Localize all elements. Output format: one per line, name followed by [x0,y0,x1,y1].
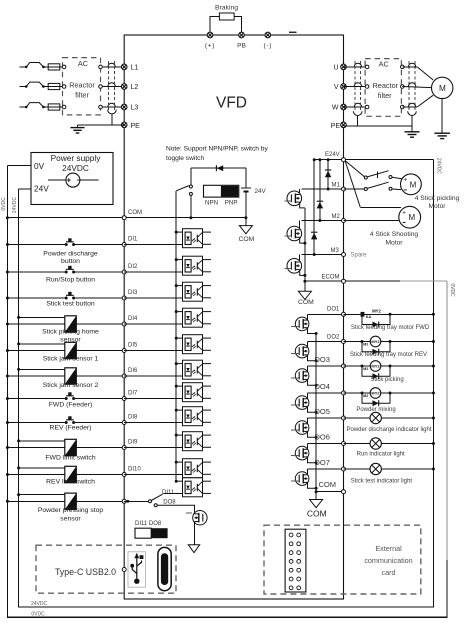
wire relay DO3 diode loop [362,366,390,376]
svg-text:4 Stick Shooting: 4 Stick Shooting [370,231,419,238]
svg-text:button: button [61,258,80,265]
svg-text:L3: L3 [131,105,139,112]
wire DO5 inside [308,417,344,419]
svg-text:DI6: DI6 [128,368,138,374]
svg-text:Run indicator light: Run indicator light [357,451,405,457]
svg-text:Stick picking home: Stick picking home [42,329,99,336]
wires filter to motor [402,66,417,68]
wire DO7 source [308,482,317,488]
terminal USB [122,568,126,572]
svg-text:Stick picking: Stick picking [370,377,403,383]
resistor braking [219,13,234,20]
wire L1 filter to terminal [101,66,125,68]
push button DI1 [65,238,75,246]
wire U/V/W to filter [344,66,368,68]
wire 24V to rail [19,188,31,190]
svg-text:Reactor: Reactor [373,81,399,90]
switch pole 1 [364,176,367,179]
switch contact 1 [389,176,392,179]
svg-text:card: card [382,568,396,577]
svg-text:+: + [403,177,407,184]
terminal DO5 [342,416,346,420]
svg-text:M2: M2 [363,367,368,371]
terminal DI9 [122,446,126,450]
junction 24VDC feed DI11 [17,493,20,496]
junction 0VDC / DI4 [6,323,9,326]
terminal PB [239,32,245,38]
junction 24VDC feed DI6 [17,368,20,371]
svg-text:0VDC: 0VDC [31,611,45,617]
wire L3 filter to terminal [101,106,125,108]
svg-text:DI8: DI8 [128,415,138,421]
wire DO2 source [308,355,317,361]
terminal DO4 [342,391,346,395]
diode toggle [215,165,217,171]
svg-text:filter: filter [75,91,89,100]
toggle switch NPN/PNP body [204,185,239,197]
svg-text:DO8: DO8 [163,500,176,506]
wire DI2 left [7,271,66,273]
wire DI11 to opto [163,493,182,495]
wire DO2 through relay to rail [344,341,434,343]
svg-text:toggle switch: toggle switch [166,155,204,162]
ground output filter [405,132,420,137]
shield loop (output right) [408,111,417,115]
push button DI8 [65,416,75,424]
junction source bus DO2 [315,359,318,362]
terminal COM (DO) [342,490,346,494]
AC reactor filter (output) [365,59,401,117]
proximity sensor DI10 [65,466,77,482]
terminal L3 [121,104,127,110]
MOSFET DO7 driver [295,472,309,486]
svg-text:Braking: Braking [215,5,238,12]
wire DI2 right [74,271,125,273]
svg-text:M2: M2 [363,394,368,398]
fuse input L2 [43,86,48,88]
wire DO2 drain [307,342,309,348]
terminal DO7 [342,467,346,471]
diode relay DO4 [373,400,379,406]
svg-text:communication: communication [364,556,412,565]
wire DI3 right [74,297,125,299]
motor 4 stick picking [401,174,422,195]
fuse input L1 [43,66,48,68]
terminal DO6 [342,442,346,446]
svg-text:24V: 24V [34,183,49,193]
svg-text:Stick test indicator light: Stick test indicator light [351,479,413,485]
winding bump output-right [408,103,415,107]
terminal DI10 [122,473,126,477]
0VDC rail (right vertical) [446,281,448,560]
svg-text:Reactor: Reactor [69,81,95,90]
svg-text:REV (Feeder): REV (Feeder) [50,425,92,432]
winding bump output-left [354,83,361,87]
junction 0VDC / DI8 [6,421,9,424]
wire PE right row [344,125,413,127]
terminal DI5 [122,349,126,353]
winding bump output-left [354,63,361,67]
optocoupler DI3 [175,282,211,301]
junction source bus DO5 [315,436,318,439]
svg-text:DI11: DI11 [162,490,175,496]
terminal DO2 [342,340,346,344]
shield loop (output left) [353,111,362,115]
svg-text:Note: Support NPN/PNP, switch: Note: Support NPN/PNP, switch by [166,145,268,152]
svg-text:V: V [334,84,339,91]
terminal (+) [207,32,213,38]
junction source bus DO1 [315,332,318,335]
COM ground symbol (DO) [310,500,323,508]
terminal DI11/DO8 [122,499,126,503]
wire DI5 left [7,350,64,352]
wire input phase L2 [20,86,27,88]
winding bump L2 input side [108,83,115,87]
toggle contact lower [189,192,192,195]
gate stub DO3 [291,377,299,379]
wire DI2 to opto [124,271,182,273]
battery 24V [245,168,247,187]
switch blade 1 [367,171,388,177]
svg-text:Powder pressing stop: Powder pressing stop [38,507,104,514]
wire DI6 right [76,375,124,377]
wire 24V feed DI6 [19,368,65,370]
wire DI3 left [7,297,66,299]
terminal W [341,104,347,110]
wire L2 filter to terminal [101,86,125,88]
wire M1 to pole2 [344,188,365,190]
wire M2 row to motor2- [344,220,400,222]
wire DI9 left [7,447,64,449]
wire M3 row [302,254,344,256]
ground motor [434,133,450,138]
winding bump L1 input side [108,63,115,67]
gate stub DO1 [291,325,299,327]
terminal L1 [121,64,127,70]
USB trident icon [128,552,146,587]
svg-text:DO1: DO1 [327,306,340,312]
svg-text:REV limit switch: REV limit switch [46,479,95,486]
junction source bus DO7 [315,487,318,490]
gate stub DO6 [291,455,299,457]
gate stub DO4 [291,404,299,406]
terminal V [341,84,347,90]
wire DO8 [157,505,194,514]
wire input phase L3 [20,106,27,108]
svg-text:sensor: sensor [60,515,81,522]
diode relay DO1 [373,322,379,328]
proximity sensor DI9 [65,439,77,455]
filter out terminal out [401,65,405,69]
connector 2x7 pins [285,529,306,592]
choke core (input) [108,61,110,110]
wire DO7 drain [307,469,309,475]
wire DO7 inside [308,468,344,470]
DC source symbol [48,179,66,181]
filter terminal in [62,65,66,69]
wire 24V feed DI10 [19,467,65,469]
wire DO4 inside [308,392,344,394]
svg-text:DO2: DO2 [327,334,340,340]
switch input L3 [25,106,28,109]
wire DI6 to opto [124,375,182,377]
svg-text:M: M [408,213,415,222]
svg-text:FWD limit switch: FWD limit switch [45,455,95,462]
svg-text:AC: AC [78,59,88,68]
svg-text:DI11 DO8: DI11 DO8 [135,521,162,527]
winding bump output-left [354,103,361,107]
wire toggle top with diode [191,167,246,169]
svg-text:W: W [332,105,339,112]
optocoupler DI10 [175,459,211,478]
svg-text:DI2: DI2 [128,264,138,270]
wire DO source bus [315,334,317,500]
junction 0VDC / DI6 [6,375,9,378]
terminal DI1 [122,243,126,247]
AC reactor filter (input) [63,58,101,115]
svg-text:L2: L2 [131,84,139,91]
wire contact2 to motor1- [392,188,401,191]
svg-text:MY2: MY2 [371,390,380,395]
terminal DO3 [342,364,346,368]
svg-text:Type-C USB2.0: Type-C USB2.0 [55,567,116,577]
wire M1 row [302,188,344,190]
terminal DI4 [122,322,126,326]
svg-text:24VDC: 24VDC [31,601,48,607]
filter terminal out [99,105,103,109]
svg-text:Stick test button: Stick test button [46,301,95,308]
wire M-driver source bus [304,208,306,291]
flyback diode M2 [319,160,321,221]
svg-text:DI4: DI4 [128,316,138,322]
svg-text:COM: COM [307,508,327,518]
wire contact1 to motor1+ [392,177,403,179]
junction 24VDC feed DI9 [17,439,20,442]
wire DO5 through lamp to rail [344,417,434,419]
svg-text:DO3: DO3 [315,355,330,364]
gate stub DO8 [186,512,192,514]
optocoupler DI2 [175,256,211,275]
junction 0VDC / DI10 [6,473,9,476]
svg-text:Stick feeding tray motor FWD: Stick feeding tray motor FWD [351,325,430,331]
terminal U [341,64,347,70]
junction 0VDC / DI3 [6,297,9,300]
optocoupler DI4 [175,308,211,327]
fork contact DO8 [154,504,157,507]
svg-text:M2: M2 [363,342,368,346]
gate stub M1 [285,200,292,202]
MOSFET DO6 driver [295,446,309,460]
optocoupler DI1 [175,229,211,248]
svg-text:COM: COM [298,299,314,306]
0VDC rail (left+bottom) [7,166,446,618]
MOSFET DO3 driver [295,369,309,383]
MOSFET M1 driver [299,189,301,195]
winding bump output-right [408,83,415,87]
wire DI8 to opto [124,422,182,424]
optocoupler DI7 [175,383,211,402]
wire DI6 left [7,375,64,377]
polarity dash mark [289,32,297,33]
wire DO1 inside [308,313,344,315]
terminal M3 [342,253,346,257]
filter terminal out [99,65,103,69]
indicator lamp DO6 [370,438,381,449]
MOSFET DO1 driver [295,317,309,331]
wire braking PB lead [234,17,241,36]
junction 0VDC / DI7 [6,397,9,400]
wire DO5 drain [307,418,309,424]
svg-text:M1: M1 [332,182,341,188]
switch gang link [377,172,379,179]
svg-text:MY2: MY2 [372,309,381,314]
wire DO3 drain [307,366,309,372]
svg-text:4 Stick pickting: 4 Stick pickting [415,195,460,202]
push button DI3 [65,292,75,300]
gate stub M2 [285,235,292,237]
proximity sensor DI4 [65,316,77,332]
svg-text:E24V: E24V [325,152,340,158]
junction 24VDC feed DI4 [17,316,20,319]
svg-text:M3: M3 [331,248,340,254]
proximity sensor powder pressing stop [65,493,77,509]
wire DO3 source [308,379,317,385]
external communication card dashed box [264,525,421,594]
gate stub DO7 [291,480,299,482]
wire fork input [124,500,148,502]
terminal DI6 [122,374,126,378]
wire COM row [7,217,124,219]
wire E24V row [314,159,343,161]
svg-text:DI3: DI3 [128,290,138,296]
svg-text:+: + [402,210,406,217]
svg-text:U: U [333,64,338,71]
filter out terminal out [401,85,405,89]
svg-text:L1: L1 [131,64,139,71]
svg-text:ECOM: ECOM [322,275,340,281]
MOSFET DO5 driver [295,421,309,435]
wire braking (+) lead [210,17,219,36]
flyback diode M1 [327,160,329,189]
svg-text:DI5: DI5 [128,343,138,349]
optocoupler DI8 [175,407,211,426]
svg-text:Motor: Motor [428,203,446,210]
wire DO6 through lamp to rail [344,443,434,445]
COM ground symbol (M drivers) [298,291,311,299]
wire M2 row [302,220,344,222]
svg-text:Stick jam sensor 1: Stick jam sensor 1 [43,356,99,363]
ground triangle DO8 [188,545,199,553]
relay coil DO2 [370,336,381,347]
junction 0VDC / DI9 [6,446,9,449]
terminal ECOM [342,279,346,283]
svg-text:PB: PB [237,43,246,50]
terminal DI3 [122,296,126,300]
junction 24VDC feed DI10 [17,466,20,469]
MOSFET M2 driver [299,221,301,230]
toggle contact upper [189,185,192,188]
wire DI9 to opto [124,447,182,449]
junction 0VDC / DI11 [6,500,9,503]
svg-text:COM: COM [319,480,337,489]
wire 24V feed DI11 [19,494,65,496]
svg-text:PE: PE [131,123,141,130]
wire opto supply bus [175,191,177,482]
wire ECOM row [305,280,344,282]
svg-text:NPN: NPN [205,199,218,206]
wire DO7 through lamp to rail [344,468,434,470]
choke core (output right) [408,61,410,110]
svg-text:Stick jam sensor 2: Stick jam sensor 2 [43,382,99,389]
wire relay DO4 diode loop [362,393,390,403]
terminal M1 [342,187,346,191]
svg-text:24VDC: 24VDC [436,158,442,175]
wire DO1 through relay to rail [344,313,434,315]
junction COM row / battery [244,216,247,219]
wire DO2 inside [308,341,344,343]
COM ground symbol (toggle) [245,218,247,226]
svg-text:MY2: MY2 [371,339,380,344]
svg-text:PE: PE [331,123,341,130]
relay coil DO3 [370,361,381,372]
wire toggle left vertical [190,168,192,185]
wire 24V feed DI9 [19,440,65,442]
svg-text:M: M [439,84,446,93]
slide switch DI11/DO8 [135,528,151,538]
wire DI8 left [7,422,66,424]
MOSFET DO2 driver [295,344,309,358]
shield loop (input) [108,110,117,114]
diode relay DO2 [373,349,379,355]
wire DO4 drain [307,393,309,399]
wire DI10 to opto [124,474,182,476]
svg-text:MY2: MY2 [371,363,380,368]
svg-text:DO4: DO4 [315,382,330,391]
push button DI2 [65,266,75,274]
MOSFET M3 driver [299,255,301,263]
svg-text:PNP: PNP [225,199,238,206]
wire DI7 left [7,398,66,400]
terminal DI2 [122,270,126,274]
24VDC rail (left+bottom+right) [19,160,434,607]
svg-text:DO7: DO7 [315,458,330,467]
VFD enclosure box [124,35,343,599]
wire DO8 source down [194,522,196,545]
svg-text:COM: COM [128,210,142,216]
Type-C connector icon [158,547,171,590]
junction source bus DO6 [315,461,318,464]
choke core (output left) [354,61,356,110]
wire DI4 to opto [124,323,182,325]
wire DI8 right [74,422,125,424]
wire DI10 left [7,474,64,476]
optocoupler DI11 [175,478,211,497]
motor 4 stick shooting [399,206,421,228]
svg-text:AC: AC [379,60,389,69]
wire DI11 right [76,500,124,502]
wire U/V/W to filter [344,106,368,108]
svg-text:Power supply: Power supply [51,153,102,163]
wire DI1 to opto [124,244,182,246]
svg-text:DO6: DO6 [315,432,330,441]
svg-text:filter: filter [378,91,392,100]
svg-text:(+): (+) [205,43,215,50]
wire DO3 inside [308,365,344,367]
svg-text:COM: COM [238,236,254,243]
terminal PE right [341,122,347,128]
wire 0V to rail [7,165,31,167]
winding bump L3 input side [108,103,115,107]
